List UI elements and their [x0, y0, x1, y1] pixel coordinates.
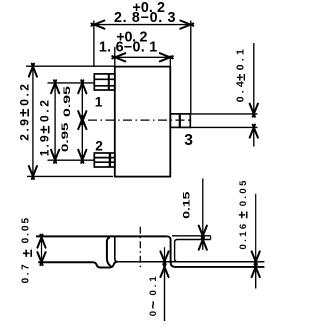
svg-text:0.2: 0.2	[17, 82, 31, 106]
dimension 0.95 center cross arrows	[78, 111, 86, 129]
svg-text:1: 1	[95, 94, 103, 109]
svg-text:2: 2	[95, 139, 103, 154]
svg-text:2.9: 2.9	[17, 117, 31, 141]
lead 3 outer bend	[167, 236, 264, 267]
body top line (side view)	[36, 235, 167, 237]
lead 3 top line	[172, 235, 211, 237]
dimension 0~0.1 upper shaft	[164, 247, 166, 261]
pin 3	[170, 114, 190, 128]
svg-text:0.7: 0.7	[21, 262, 32, 284]
dimension 1.9 arrows	[51, 80, 59, 163]
svg-text:+0. 2: +0. 2	[116, 29, 147, 45]
pin 1	[94, 74, 115, 90]
svg-text:0.95: 0.95	[62, 85, 73, 117]
dimension 0~0.1 cross arrows	[160, 251, 168, 277]
svg-text:+0. 2: +0. 2	[132, 0, 165, 16]
svg-text:0.1: 0.1	[235, 46, 247, 70]
svg-text:±: ±	[233, 74, 248, 81]
dimension 1.6 arrows	[112, 53, 173, 61]
dimension 0.15 cross arrows	[199, 226, 207, 250]
svg-text:3: 3	[184, 132, 193, 149]
dimension 1.9 : extension lines	[48, 83, 95, 160]
dimension 0.4 arrows	[250, 104, 258, 138]
svg-text:±: ±	[16, 109, 33, 117]
dimension 0.16 lower line	[255, 267, 257, 289]
dimension 0.4 : extension lines	[190, 43, 257, 147]
package body top view	[115, 67, 171, 177]
dimension 2.9 arrows	[29, 64, 37, 179]
dimension 0.95 x2 : dimension line	[81, 83, 83, 160]
dimension 2.8 arrows	[91, 21, 193, 29]
svg-text:0.95: 0.95	[60, 121, 71, 152]
svg-text:0.05: 0.05	[238, 178, 249, 206]
svg-text:±: ±	[36, 126, 53, 134]
svg-text:0.1: 0.1	[148, 273, 159, 295]
svg-text:0.15: 0.15	[182, 192, 192, 219]
svg-text:0: 0	[148, 311, 159, 316]
svg-text:1.9: 1.9	[38, 133, 52, 156]
dimension 0.7 line	[41, 237, 43, 262]
svg-text:±: ±	[235, 211, 250, 219]
dimension 2.9 : extension lines	[26, 66, 115, 176]
lead 3 inner bend	[175, 240, 211, 262]
side view vertical centerline (dash-dot)	[139, 227, 141, 271]
pin 2	[94, 153, 115, 167]
svg-text:~: ~	[145, 301, 161, 309]
seating line (foot top)	[115, 261, 265, 263]
body bottom line + left lead under-bend	[38, 262, 117, 268]
dimension 0~0.1 lower shaft	[164, 267, 166, 321]
svg-text:±: ±	[20, 249, 36, 257]
dimension 0.16 arrows	[252, 251, 260, 277]
dimension 0.95 arrows	[78, 80, 86, 163]
dimension 1.6 +0.2/-0.1 : extension lines	[115, 47, 171, 67]
dimension 2.8 +0.2/-0.3 : extension lines	[94, 21, 191, 114]
dimension 0.7 arrows	[37, 235, 45, 266]
svg-text:0.16: 0.16	[238, 221, 249, 249]
dimension 0.16 upper line	[255, 194, 257, 262]
left lead left surface	[107, 237, 111, 266]
dimension 0.15 line	[202, 179, 204, 250]
centerline (dash-dot)	[88, 119, 193, 121]
svg-text:0.05: 0.05	[21, 216, 32, 243]
left lead right surface	[115, 237, 118, 262]
svg-text:0.2: 0.2	[38, 98, 52, 122]
